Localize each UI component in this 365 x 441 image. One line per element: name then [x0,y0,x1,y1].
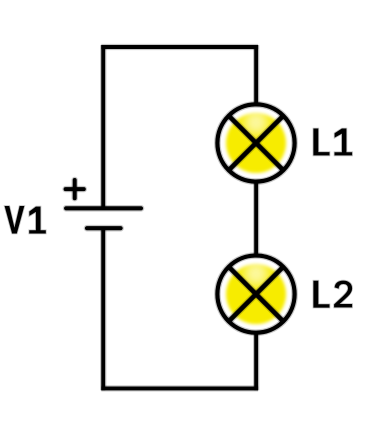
battery positive plate (long) [66,205,141,212]
label L2 [313,281,352,308]
lamp L2 [217,256,294,333]
polarity plus sign [66,180,84,198]
wire: right vertical between lamp L1 bottom and lamp L2 top [253,182,259,255]
wire: right vertical from lamp L2 bottom to bottom-right corner [253,333,259,390]
wire: left vertical from bottom-left corner up to battery negative plate [100,228,106,390]
wire: top horizontal from top-left corner to top-right corner [101,44,258,50]
wire: right vertical from top-right corner down to lamp L1 top [253,45,259,104]
battery negative plate (short) [87,225,121,232]
wire: left vertical from battery positive plate up to top-left corner [100,45,106,208]
lamp L1 [217,104,294,181]
wire: bottom horizontal from bottom-right corner to bottom-left corner [101,385,258,391]
label L1 [313,129,352,156]
battery V1 [66,208,141,228]
label V1 [5,206,46,234]
